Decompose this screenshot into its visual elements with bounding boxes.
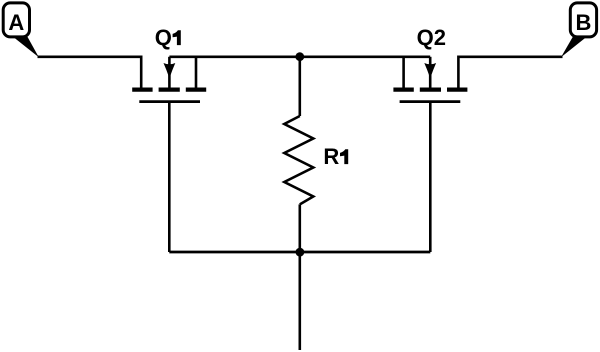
svg-text:B: B (575, 10, 591, 35)
svg-text:Q: Q (155, 25, 172, 50)
svg-text:A: A (8, 10, 24, 35)
svg-text:R: R (323, 144, 339, 169)
svg-text:Q2: Q2 (417, 25, 446, 50)
